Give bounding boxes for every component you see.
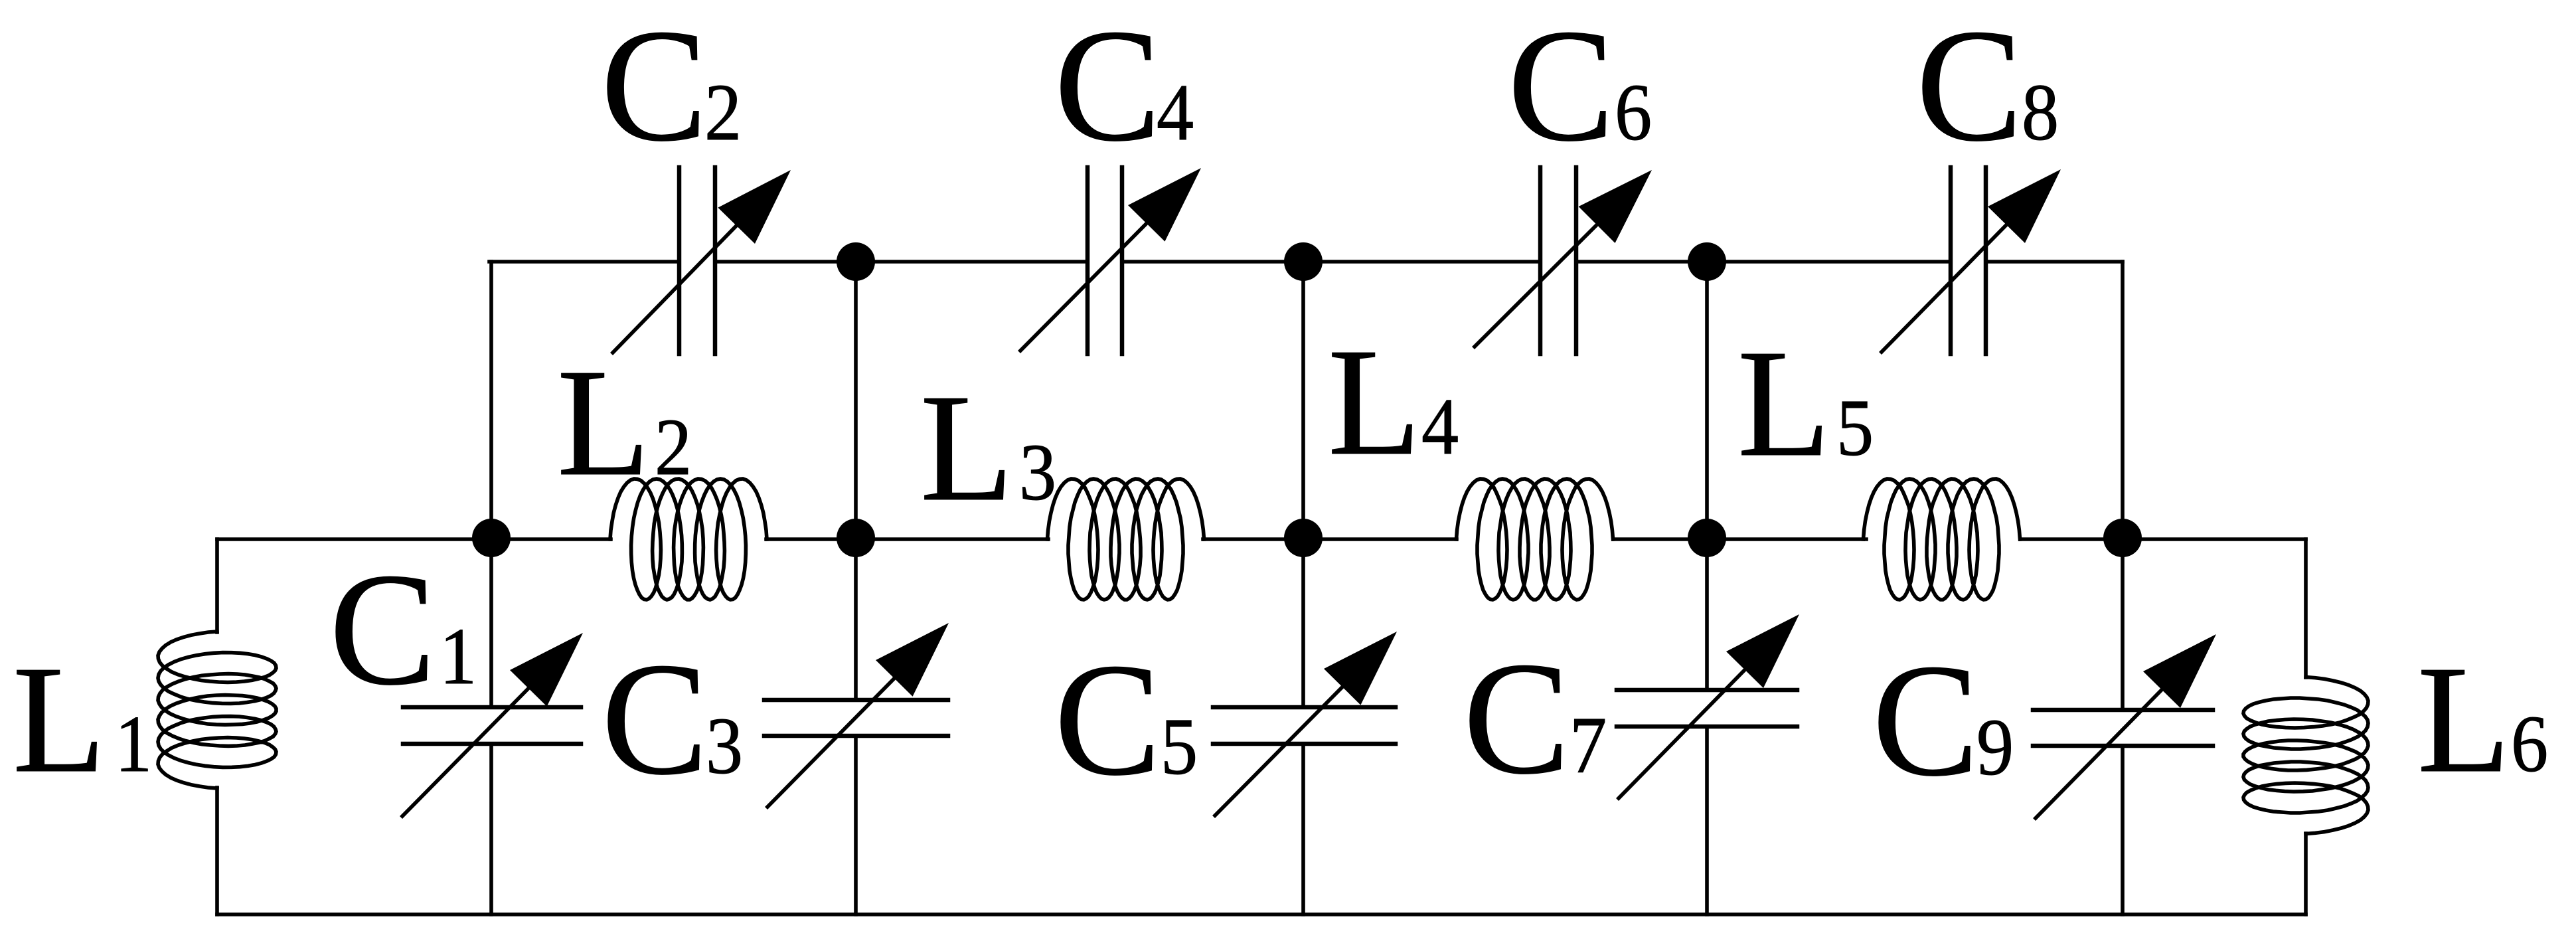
label L3 <box>920 362 1056 533</box>
wire top bus segment 2 <box>715 260 1087 264</box>
label C5 <box>1054 631 1198 809</box>
label C4 <box>1054 0 1194 175</box>
svg-text:C: C <box>1916 0 2022 175</box>
capacitor C8 (variable, series) <box>1882 167 2061 354</box>
svg-text:L: L <box>1737 317 1830 488</box>
svg-text:C: C <box>1872 632 1978 810</box>
wire L6 top lead <box>2304 539 2308 677</box>
wire mid bus segment 1 <box>766 537 1048 541</box>
svg-text:C: C <box>1463 630 1570 808</box>
label L1 <box>13 634 152 804</box>
wire C1 bottom lead <box>489 744 493 914</box>
capacitor C6 (variable, series) <box>1475 167 1652 354</box>
wire riser at node B <box>854 262 858 539</box>
svg-text:7: 7 <box>1570 701 1607 790</box>
wire L6 bottom lead <box>2304 833 2308 914</box>
node top-C <box>1284 242 1323 281</box>
svg-text:L: L <box>920 362 1013 533</box>
svg-text:1: 1 <box>440 612 477 701</box>
capacitor C1 (variable, shunt) <box>402 633 583 816</box>
inductor L5 <box>1864 479 2020 600</box>
svg-text:L: L <box>1328 316 1421 487</box>
svg-text:L: L <box>557 337 650 507</box>
svg-text:C: C <box>1054 631 1161 809</box>
svg-text:2: 2 <box>655 403 692 492</box>
wire mid bus segment 2 <box>1203 537 1457 541</box>
wire top bus segment 1 <box>489 260 679 264</box>
svg-text:2: 2 <box>704 68 742 157</box>
svg-text:C: C <box>1054 0 1161 175</box>
svg-text:C: C <box>602 630 708 808</box>
node top-B <box>837 242 875 281</box>
svg-text:8: 8 <box>2022 68 2059 157</box>
wire bottom bus <box>217 912 2306 916</box>
label C9 <box>1872 632 2014 810</box>
label C7 <box>1463 630 1607 808</box>
svg-text:1: 1 <box>115 700 152 789</box>
node mid-C <box>1284 519 1323 557</box>
svg-text:3: 3 <box>1019 428 1056 517</box>
wire mid bus segment 4 <box>2020 537 2306 541</box>
capacitor C4 (variable, series) <box>1020 167 1201 354</box>
svg-text:C: C <box>1508 0 1614 175</box>
svg-text:4: 4 <box>1157 68 1194 157</box>
inductor L3 <box>1048 479 1204 600</box>
svg-text:C: C <box>601 0 707 175</box>
label C6 <box>1508 0 1652 175</box>
node mid-E <box>2103 519 2142 557</box>
node mid-A <box>472 519 511 557</box>
svg-text:3: 3 <box>706 702 743 791</box>
wire top bus segment 4 <box>1576 260 1951 264</box>
inductor L1 <box>158 632 276 788</box>
svg-text:5: 5 <box>1836 384 1874 473</box>
inductor L6 <box>2243 677 2368 834</box>
capacitor C5 (variable, shunt) <box>1213 632 1397 816</box>
wire C5 bottom lead <box>1301 744 1305 914</box>
svg-text:L: L <box>2417 634 2510 804</box>
capacitor C3 (variable, shunt) <box>764 623 949 807</box>
wire riser at node C <box>1301 262 1305 539</box>
wire mid bus segment 3 <box>1613 537 1866 541</box>
capacitor C7 (variable, shunt) <box>1617 614 1799 798</box>
label L4 <box>1328 316 1459 487</box>
inductor L2 <box>610 479 767 600</box>
label C1 <box>329 541 477 719</box>
wire top bus segment 5 <box>1986 260 2123 264</box>
capacitor C9 (variable, shunt) <box>2033 634 2216 818</box>
wire C9 top lead <box>2121 539 2125 710</box>
wire C3 top lead <box>854 539 858 700</box>
wire top bus segment 3 <box>1122 260 1540 264</box>
label L6 <box>2417 634 2548 804</box>
svg-text:6: 6 <box>2511 700 2548 789</box>
wire C5 top lead <box>1301 539 1305 707</box>
svg-text:L: L <box>13 634 106 804</box>
wire C7 bottom lead <box>1705 727 1709 914</box>
node mid-D <box>1688 519 1726 557</box>
label L2 <box>557 337 692 507</box>
wire riser at node D <box>1705 262 1709 539</box>
wire mid bus segment 0 <box>217 537 611 541</box>
label C3 <box>602 630 743 808</box>
svg-text:4: 4 <box>1421 383 1459 472</box>
svg-text:C: C <box>329 541 436 719</box>
svg-text:5: 5 <box>1161 703 1198 792</box>
wire C3 bottom lead <box>854 736 858 914</box>
label L5 <box>1737 317 1874 488</box>
node top-D <box>1688 242 1726 281</box>
inductor L4 <box>1457 479 1613 600</box>
node mid-B <box>837 519 875 557</box>
label C2 <box>601 0 742 175</box>
wire C9 bottom lead <box>2121 746 2125 914</box>
wire right riser <box>2121 262 2125 539</box>
wire left riser <box>489 262 493 539</box>
svg-text:9: 9 <box>1976 703 2014 792</box>
wire L1 top lead <box>215 539 219 632</box>
wire C7 top lead <box>1705 539 1709 690</box>
label C8 <box>1916 0 2059 175</box>
svg-text:6: 6 <box>1615 68 1652 157</box>
capacitor C2 (variable, series) <box>613 167 791 354</box>
wire C1 top lead <box>489 539 493 707</box>
wire L1 bottom lead <box>215 788 219 914</box>
